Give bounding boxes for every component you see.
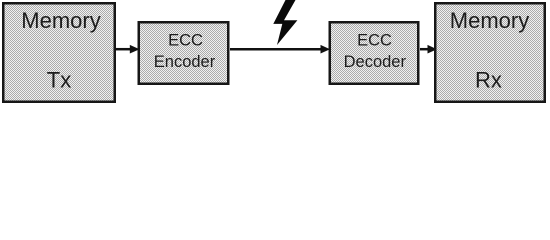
svg-text:Memory: Memory [21,8,100,33]
svg-text:ECC: ECC [357,32,392,50]
block Memory Tx [3,3,115,102]
lightning bolt (error strike) [273,0,297,45]
svg-text:Decoder: Decoder [344,53,407,71]
wire ECC Decoder to Memory Rx [420,48,428,51]
arrowhead into ECC Encoder [130,45,140,54]
svg-text:Rx: Rx [475,68,502,93]
wire Memory Tx to ECC Encoder [115,48,131,51]
svg-text:Encoder: Encoder [154,53,216,71]
svg-text:ECC: ECC [168,32,203,50]
wire ECC Encoder to ECC Decoder [230,48,321,51]
svg-text:Tx: Tx [47,68,71,93]
arrowhead into Memory Rx [428,45,438,54]
svg-text:Memory: Memory [450,8,529,33]
block Memory Rx [435,3,545,102]
block ECC Encoder [139,22,229,84]
block ECC Decoder [330,22,419,84]
arrowhead into ECC Decoder [321,45,331,54]
